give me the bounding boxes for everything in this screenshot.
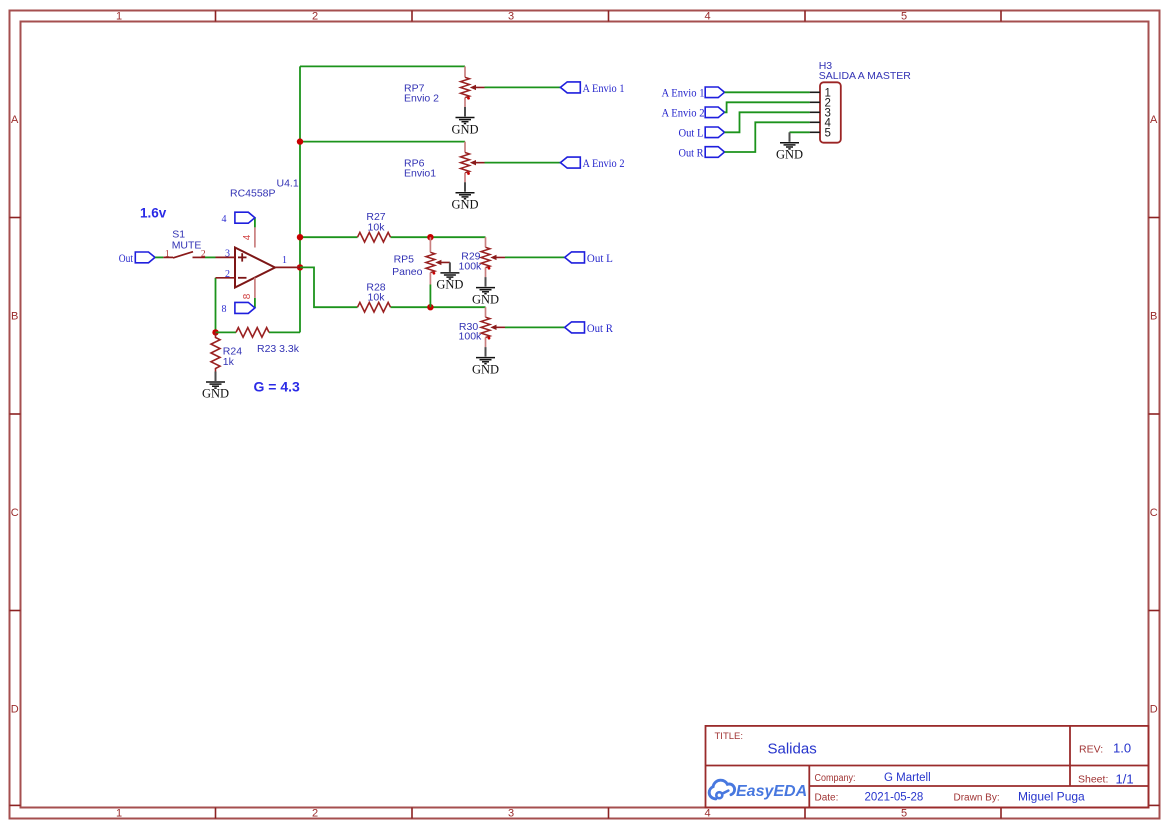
svg-text:Out L: Out L xyxy=(679,126,704,140)
svg-text:SALIDA A MASTER: SALIDA A MASTER xyxy=(819,70,912,82)
ground RP7 xyxy=(456,107,475,124)
svg-text:Out: Out xyxy=(119,251,134,265)
svg-text:Envio 2: Envio 2 xyxy=(404,93,439,105)
svg-text:A Envio 2: A Envio 2 xyxy=(583,156,625,170)
svg-text:GND: GND xyxy=(202,387,229,401)
svg-text:5: 5 xyxy=(901,11,907,23)
svg-text:B: B xyxy=(11,311,18,323)
svg-text:1.6v: 1.6v xyxy=(140,206,167,221)
svg-text:TITLE:: TITLE: xyxy=(715,731,744,742)
svg-text:EasyEDA: EasyEDA xyxy=(736,783,807,800)
junction R24-R23 xyxy=(212,329,218,335)
svg-text:1k: 1k xyxy=(223,356,235,368)
svg-text:4: 4 xyxy=(704,808,710,820)
svg-text:2: 2 xyxy=(312,808,318,820)
H3 pin stubs xyxy=(810,92,820,132)
wire RP7 wiper to flag xyxy=(485,86,561,88)
svg-text:5: 5 xyxy=(901,808,907,820)
potentiometer R29 xyxy=(485,237,487,247)
wire H3 pin2 xyxy=(725,102,810,112)
svg-text:MUTE: MUTE xyxy=(172,240,202,252)
wire H3 pin4 xyxy=(725,122,810,152)
svg-text:Sheet:: Sheet: xyxy=(1078,774,1108,786)
svg-text:Out L: Out L xyxy=(587,251,613,265)
svg-text:GND: GND xyxy=(472,292,499,306)
power pin 4 xyxy=(254,218,256,228)
svg-text:D: D xyxy=(11,704,19,716)
port Out (input) xyxy=(135,252,155,263)
junction output node xyxy=(297,264,303,270)
svg-text:Paneo: Paneo xyxy=(392,266,423,278)
svg-text:Out R: Out R xyxy=(587,321,613,335)
ground RP5 xyxy=(440,262,459,279)
svg-text:GND: GND xyxy=(472,362,499,376)
svg-text:5: 5 xyxy=(825,127,831,139)
potentiometer RP5 xyxy=(429,237,431,252)
svg-text:1: 1 xyxy=(116,11,122,23)
svg-text:Salidas: Salidas xyxy=(768,741,817,758)
junction bus-R27 xyxy=(297,234,303,240)
wire top bus to RP7 xyxy=(300,65,465,67)
port Out R xyxy=(565,322,585,333)
svg-text:1: 1 xyxy=(165,249,170,259)
svg-text:Envio1: Envio1 xyxy=(404,168,436,180)
port A Envio 1 (input) xyxy=(705,87,724,98)
wire R30 wiper to Out R xyxy=(505,326,565,328)
port A Envio 1 xyxy=(560,82,580,93)
svg-text:1: 1 xyxy=(282,255,287,266)
wire H3 pin5 xyxy=(790,131,810,133)
wire R27 to RP5/R29 xyxy=(391,236,486,238)
port A Envio 2 xyxy=(560,157,580,168)
ground RP6 xyxy=(456,182,475,199)
wire R29 wiper to Out L xyxy=(505,256,565,258)
potentiometer RP6 xyxy=(464,142,466,153)
svg-text:D: D xyxy=(1150,704,1158,716)
svg-text:4: 4 xyxy=(704,11,710,23)
wire switch to pin3 xyxy=(205,256,216,258)
TITLE BLOCK xyxy=(706,726,1149,808)
wire H3 pin1 xyxy=(725,91,810,93)
svg-text:A Envio 1: A Envio 1 xyxy=(662,86,705,100)
EasyEDA logo xyxy=(709,780,807,800)
wire RP5 bottom xyxy=(429,285,431,308)
resistor R24 xyxy=(211,332,220,371)
wire H3 pin3 xyxy=(725,112,810,132)
svg-text:REV:: REV: xyxy=(1079,744,1103,756)
port Out L xyxy=(565,252,585,263)
svg-text:3: 3 xyxy=(225,249,230,260)
svg-text:100k: 100k xyxy=(459,261,483,273)
svg-text:8: 8 xyxy=(222,304,227,315)
wire vertical bus xyxy=(299,66,301,332)
svg-text:A: A xyxy=(11,114,19,126)
svg-text:Out R: Out R xyxy=(679,145,704,159)
pin 1 wire xyxy=(275,266,300,268)
port A Envio 2 (input) xyxy=(705,107,724,118)
power pin 8 xyxy=(254,298,256,308)
svg-text:100k: 100k xyxy=(459,331,483,343)
wire bus to R27 xyxy=(300,236,358,238)
wire Out to switch xyxy=(155,256,163,258)
svg-text:1.0: 1.0 xyxy=(1113,741,1131,756)
svg-text:10k: 10k xyxy=(368,222,386,234)
svg-text:2021-05-28: 2021-05-28 xyxy=(865,792,924,804)
svg-text:C: C xyxy=(11,507,19,519)
ground R30 xyxy=(476,347,495,364)
svg-text:G Martell: G Martell xyxy=(884,772,931,784)
power flag 4 xyxy=(235,212,255,223)
port Out R (input) xyxy=(705,147,724,158)
svg-text:Company:: Company: xyxy=(815,773,856,784)
ground R29 xyxy=(476,277,495,294)
ground R24 xyxy=(206,372,225,389)
svg-text:2: 2 xyxy=(225,269,230,280)
svg-text:A Envio 1: A Envio 1 xyxy=(583,81,625,95)
svg-text:B: B xyxy=(1150,311,1157,323)
svg-text:4: 4 xyxy=(222,214,227,225)
svg-text:3: 3 xyxy=(508,11,514,23)
power flag 8 xyxy=(235,302,255,313)
H3 pin numbers xyxy=(825,87,832,139)
op-amp U4.1 xyxy=(235,248,275,288)
svg-text:1/1: 1/1 xyxy=(1116,772,1134,787)
junction bus-RP6 xyxy=(297,138,303,144)
ground H3 xyxy=(780,132,799,149)
resistor R23 xyxy=(236,328,269,338)
svg-text:GND: GND xyxy=(451,123,478,137)
port Out L (input) xyxy=(705,127,724,138)
svg-text:R23 3.3k: R23 3.3k xyxy=(257,343,300,355)
svg-text:C: C xyxy=(1150,507,1158,519)
switch S1 xyxy=(163,256,173,258)
svg-text:GND: GND xyxy=(436,278,463,292)
pin 3 wire xyxy=(216,256,236,258)
svg-text:U4.1: U4.1 xyxy=(277,178,299,190)
svg-text:GND: GND xyxy=(451,198,478,212)
svg-text:3: 3 xyxy=(508,808,514,820)
svg-text:Drawn By:: Drawn By: xyxy=(954,793,1000,804)
wire R28 to R30 xyxy=(391,306,486,308)
wire output jog to R28 xyxy=(300,267,358,307)
svg-text:8: 8 xyxy=(242,293,253,299)
svg-text:RP5: RP5 xyxy=(394,253,415,265)
svg-text:2: 2 xyxy=(312,11,318,23)
wire pin2 feedback vertical xyxy=(215,278,217,333)
svg-text:GND: GND xyxy=(776,148,803,162)
svg-text:G = 4.3: G = 4.3 xyxy=(254,379,301,395)
svg-text:1: 1 xyxy=(116,808,122,820)
wire R23 left xyxy=(216,331,237,333)
svg-text:Miguel Puga: Miguel Puga xyxy=(1018,790,1085,804)
wire RP6 wiper to flag xyxy=(485,162,561,164)
resistor R28 xyxy=(358,302,391,312)
svg-text:Date:: Date: xyxy=(815,793,839,804)
svg-text:10k: 10k xyxy=(368,292,386,304)
potentiometer RP7 xyxy=(464,66,466,77)
svg-text:4: 4 xyxy=(242,234,253,240)
wire R23 right xyxy=(269,331,300,333)
potentiometer R30 xyxy=(485,307,487,317)
junction R27-RP5 xyxy=(427,234,433,240)
pin 2 wire xyxy=(216,277,236,279)
resistor R27 xyxy=(358,232,391,242)
wire bus to RP6 xyxy=(300,141,465,143)
svg-text:RC4558P: RC4558P xyxy=(230,187,276,199)
svg-text:A: A xyxy=(1150,114,1158,126)
junction RP5-R28 xyxy=(427,304,433,310)
svg-text:A Envio 2: A Envio 2 xyxy=(662,106,705,120)
